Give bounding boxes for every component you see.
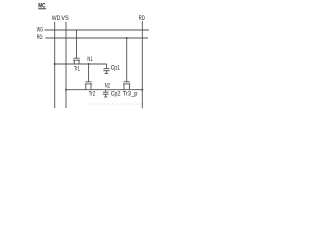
svg-text:RG: RG	[37, 35, 43, 41]
svg-text:N1: N1	[87, 57, 93, 63]
svg-text:N2: N2	[105, 83, 111, 89]
svg-text:VS: VS	[61, 16, 69, 22]
svg-text:MC: MC	[38, 3, 46, 9]
svg-text:Tr2: Tr2	[89, 92, 96, 98]
svg-text:Tr1: Tr1	[74, 66, 80, 72]
svg-text:Cp1: Cp1	[111, 65, 121, 71]
svg-text:RD: RD	[139, 16, 146, 22]
svg-text:Cp2: Cp2	[111, 92, 121, 98]
svg-text:Tr3_p: Tr3_p	[123, 92, 138, 98]
svg-text:WD: WD	[52, 16, 61, 22]
svg-text:WG: WG	[37, 28, 43, 34]
